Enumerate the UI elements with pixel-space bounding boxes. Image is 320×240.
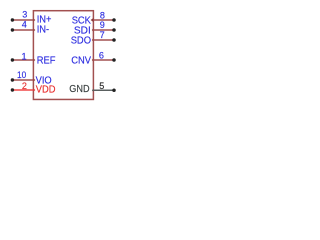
svg-text:REF: REF	[37, 56, 56, 67]
pin 1 input nub	[34, 59, 36, 62]
svg-text:SDO: SDO	[71, 36, 91, 47]
svg-text:8: 8	[100, 10, 105, 20]
pin 2 power nub	[34, 89, 36, 92]
svg-text:2: 2	[22, 81, 27, 91]
pin 10 input nub	[34, 79, 36, 82]
pin 6 node dot	[112, 58, 116, 62]
pin 10 node dot	[11, 78, 14, 81]
pin 4 wire (IN-)	[12, 29, 33, 31]
pin 8 wire (SCK)	[93, 19, 114, 21]
svg-text:1: 1	[21, 51, 26, 61]
svg-text:4: 4	[22, 19, 27, 29]
svg-text:9: 9	[100, 20, 105, 30]
pin 8 clock input arrow	[91, 18, 94, 22]
pin 6 wire (CNV)	[93, 59, 114, 61]
pin 3 input nub	[34, 19, 36, 22]
pin 10 wire (VIO)	[12, 79, 33, 81]
svg-text:GND: GND	[69, 84, 89, 95]
pin 9 input nub	[92, 29, 93, 32]
pin 7 output nub	[92, 39, 93, 42]
pin 5 wire (GND, power)	[93, 89, 114, 91]
pin 1 node dot	[11, 58, 14, 61]
svg-text:CNV: CNV	[71, 56, 91, 67]
pin 4 node dot	[11, 28, 14, 31]
svg-text:10: 10	[17, 70, 26, 80]
pin 5 node dot	[112, 89, 116, 93]
pin 6 input nub	[92, 59, 93, 62]
IC body U1	[33, 11, 93, 100]
pin 7 node dot	[112, 38, 116, 42]
pin 2 node dot	[11, 88, 14, 91]
pin 7 wire (SDO)	[93, 39, 114, 41]
svg-text:7: 7	[100, 30, 105, 40]
pin 5 power nub	[92, 89, 93, 92]
pin 8 node dot	[112, 18, 116, 22]
svg-text:VDD: VDD	[36, 85, 56, 96]
svg-text:5: 5	[99, 81, 104, 91]
svg-text:6: 6	[99, 50, 104, 60]
pin 3 node dot	[11, 18, 14, 21]
pin 1 wire (REF)	[12, 59, 33, 61]
pin 3 wire (IN+)	[12, 19, 33, 21]
svg-text:3: 3	[22, 9, 27, 19]
pin 2 wire (VDD, power)	[12, 89, 33, 91]
pin 4 input nub	[34, 29, 36, 32]
pin 9 node dot	[112, 28, 116, 32]
svg-text:IN-: IN-	[37, 25, 50, 36]
pin 9 wire (SDI)	[93, 29, 114, 31]
